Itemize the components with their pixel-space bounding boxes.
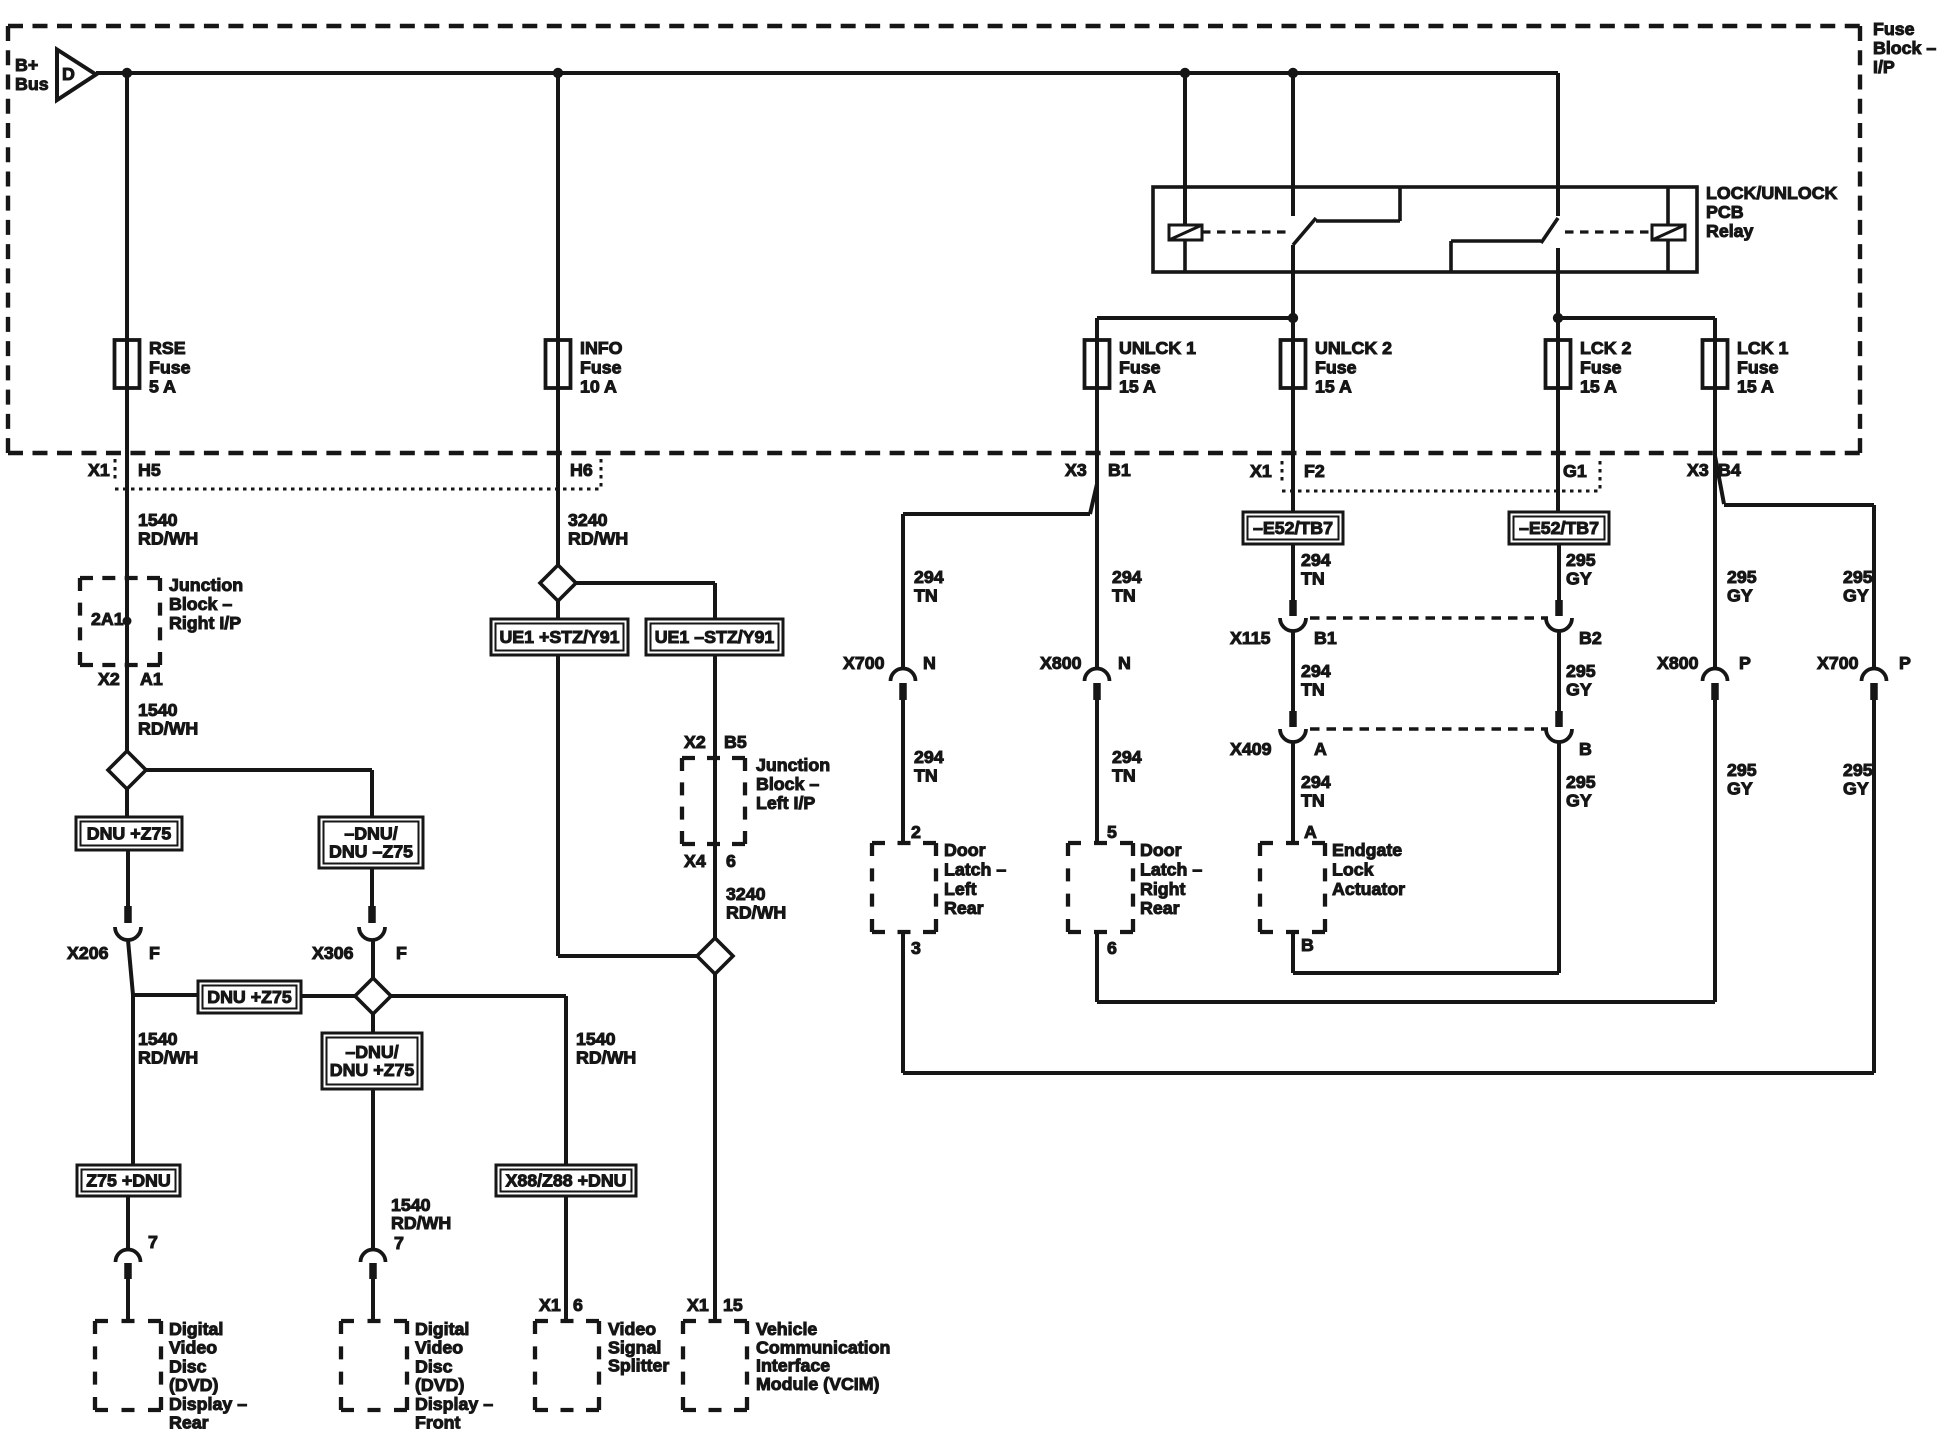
- svg-text:Display –: Display –: [169, 1394, 247, 1414]
- svg-text:B1: B1: [1108, 460, 1131, 480]
- svg-text:B4: B4: [1718, 460, 1741, 480]
- svg-text:Left I/P: Left I/P: [756, 793, 815, 813]
- svg-text:1540: 1540: [391, 1195, 431, 1215]
- svg-text:DNU –Z75: DNU –Z75: [329, 842, 413, 862]
- svg-text:P: P: [1739, 653, 1751, 673]
- svg-text:N: N: [923, 653, 936, 673]
- svg-text:INFO: INFO: [580, 338, 623, 358]
- svg-text:X115: X115: [1230, 628, 1271, 648]
- svg-text:295: 295: [1566, 772, 1596, 792]
- svg-text:Splitter: Splitter: [608, 1356, 669, 1376]
- svg-text:H6: H6: [570, 460, 593, 480]
- svg-text:B1: B1: [1314, 628, 1337, 648]
- svg-text:RD/WH: RD/WH: [576, 1048, 636, 1068]
- svg-text:LCK 2: LCK 2: [1580, 338, 1631, 358]
- svg-text:B: B: [1579, 739, 1592, 759]
- svg-text:DNU +Z75: DNU +Z75: [87, 824, 172, 844]
- svg-text:A: A: [1314, 739, 1327, 759]
- svg-text:X700: X700: [843, 653, 885, 673]
- svg-text:RD/WH: RD/WH: [568, 529, 628, 549]
- svg-text:6: 6: [726, 851, 736, 871]
- svg-text:F: F: [396, 943, 407, 963]
- svg-text:UNLCK 1: UNLCK 1: [1119, 338, 1196, 358]
- svg-text:X800: X800: [1657, 653, 1699, 673]
- svg-text:DNU +Z75: DNU +Z75: [207, 987, 292, 1007]
- svg-text:Digital: Digital: [169, 1319, 223, 1339]
- svg-text:Front: Front: [415, 1413, 461, 1432]
- svg-text:Z75 +DNU: Z75 +DNU: [86, 1171, 171, 1191]
- svg-text:1540: 1540: [576, 1029, 616, 1049]
- svg-text:X88/Z88 +DNU: X88/Z88 +DNU: [505, 1171, 626, 1191]
- svg-text:GY: GY: [1727, 779, 1753, 799]
- svg-text:294: 294: [1301, 661, 1331, 681]
- svg-text:P: P: [1899, 653, 1911, 673]
- svg-text:294: 294: [914, 747, 944, 767]
- svg-text:F2: F2: [1304, 461, 1325, 481]
- svg-text:Rear: Rear: [1140, 898, 1180, 918]
- svg-text:Fuse: Fuse: [580, 357, 622, 377]
- svg-text:X3: X3: [1065, 460, 1087, 480]
- svg-text:B: B: [1301, 935, 1314, 955]
- svg-text:N: N: [1118, 653, 1131, 673]
- svg-text:PCB: PCB: [1706, 202, 1744, 222]
- svg-text:RD/WH: RD/WH: [138, 529, 198, 549]
- svg-text:B5: B5: [724, 732, 747, 752]
- svg-text:295: 295: [1727, 567, 1757, 587]
- svg-text:Door: Door: [1140, 840, 1182, 860]
- svg-text:7: 7: [148, 1232, 158, 1252]
- svg-text:–DNU/: –DNU/: [344, 824, 397, 844]
- svg-text:Fuse: Fuse: [1315, 357, 1357, 377]
- svg-text:Video: Video: [415, 1338, 463, 1358]
- svg-text:GY: GY: [1843, 586, 1869, 606]
- svg-text:295: 295: [1566, 661, 1596, 681]
- svg-text:Communication: Communication: [756, 1337, 890, 1357]
- svg-text:Right I/P: Right I/P: [169, 613, 241, 633]
- svg-text:295: 295: [1566, 550, 1596, 570]
- svg-text:Display –: Display –: [415, 1394, 493, 1414]
- svg-text:X1: X1: [687, 1295, 709, 1315]
- svg-text:3240: 3240: [568, 510, 608, 530]
- svg-text:F: F: [149, 943, 160, 963]
- svg-text:295: 295: [1843, 760, 1873, 780]
- svg-text:–E52/TB7: –E52/TB7: [1519, 518, 1599, 538]
- svg-text:Relay: Relay: [1706, 221, 1754, 241]
- svg-text:X4: X4: [684, 851, 706, 871]
- svg-text:X1: X1: [88, 460, 110, 480]
- svg-text:Left: Left: [944, 879, 977, 899]
- svg-text:X206: X206: [67, 943, 109, 963]
- svg-text:DNU +Z75: DNU +Z75: [330, 1060, 415, 1080]
- svg-text:TN: TN: [1112, 586, 1136, 606]
- svg-text:Bus: Bus: [15, 74, 49, 94]
- svg-text:B+: B+: [15, 55, 38, 75]
- svg-text:Endgate: Endgate: [1332, 840, 1402, 860]
- svg-text:15 A: 15 A: [1737, 377, 1774, 397]
- svg-text:Junction: Junction: [169, 575, 243, 595]
- svg-text:TN: TN: [1301, 680, 1325, 700]
- svg-text:TN: TN: [1112, 766, 1136, 786]
- svg-text:RD/WH: RD/WH: [138, 719, 198, 739]
- svg-text:I/P: I/P: [1873, 57, 1895, 77]
- svg-text:TN: TN: [1301, 569, 1325, 589]
- svg-text:UE1 –STZ/Y91: UE1 –STZ/Y91: [655, 627, 775, 647]
- svg-text:Junction: Junction: [756, 755, 830, 775]
- svg-text:Fuse: Fuse: [1580, 357, 1622, 377]
- svg-text:Disc: Disc: [415, 1356, 453, 1376]
- svg-text:5 A: 5 A: [149, 377, 176, 397]
- svg-text:3: 3: [911, 938, 921, 958]
- svg-text:X700: X700: [1817, 653, 1859, 673]
- svg-text:GY: GY: [1566, 569, 1592, 589]
- svg-text:295: 295: [1843, 567, 1873, 587]
- svg-text:Module (VCIM): Module (VCIM): [756, 1374, 880, 1394]
- svg-text:3240: 3240: [726, 884, 766, 904]
- svg-text:D: D: [62, 64, 75, 84]
- svg-text:TN: TN: [1301, 791, 1325, 811]
- svg-text:Door: Door: [944, 840, 986, 860]
- svg-text:–DNU/: –DNU/: [345, 1042, 398, 1062]
- svg-text:Fuse: Fuse: [1119, 357, 1161, 377]
- svg-text:GY: GY: [1566, 791, 1592, 811]
- svg-text:RD/WH: RD/WH: [391, 1213, 451, 1233]
- svg-text:X306: X306: [312, 943, 354, 963]
- svg-text:UNLCK 2: UNLCK 2: [1315, 338, 1392, 358]
- svg-text:H5: H5: [138, 460, 161, 480]
- svg-text:Rear: Rear: [169, 1413, 209, 1432]
- svg-text:295: 295: [1727, 760, 1757, 780]
- svg-text:Rear: Rear: [944, 898, 984, 918]
- svg-text:Block –: Block –: [169, 594, 232, 614]
- svg-text:Video: Video: [169, 1338, 217, 1358]
- svg-text:Fuse: Fuse: [1737, 357, 1779, 377]
- svg-text:15 A: 15 A: [1315, 377, 1352, 397]
- svg-text:Disc: Disc: [169, 1356, 207, 1376]
- svg-text:15: 15: [723, 1295, 743, 1315]
- svg-text:A: A: [1304, 822, 1317, 842]
- svg-text:5: 5: [1107, 822, 1117, 842]
- svg-text:G1: G1: [1563, 461, 1587, 481]
- svg-text:6: 6: [1107, 938, 1117, 958]
- svg-text:X1: X1: [1250, 461, 1272, 481]
- svg-text:TN: TN: [914, 766, 938, 786]
- svg-text:Latch –: Latch –: [944, 859, 1006, 879]
- svg-text:GY: GY: [1843, 779, 1869, 799]
- svg-text:X1: X1: [539, 1295, 561, 1315]
- svg-text:294: 294: [914, 567, 944, 587]
- svg-text:(DVD): (DVD): [169, 1375, 218, 1395]
- svg-text:7: 7: [394, 1233, 404, 1253]
- svg-text:LCK 1: LCK 1: [1737, 338, 1788, 358]
- svg-text:2A1: 2A1: [91, 609, 124, 629]
- svg-text:X800: X800: [1040, 653, 1082, 673]
- svg-text:TN: TN: [914, 586, 938, 606]
- svg-text:1540: 1540: [138, 700, 178, 720]
- svg-text:GY: GY: [1727, 586, 1753, 606]
- svg-text:Lock: Lock: [1332, 859, 1374, 879]
- svg-text:15 A: 15 A: [1119, 377, 1156, 397]
- svg-text:294: 294: [1301, 550, 1331, 570]
- svg-text:RSE: RSE: [149, 338, 186, 358]
- svg-text:Right: Right: [1140, 879, 1186, 899]
- svg-text:Fuse: Fuse: [149, 357, 191, 377]
- svg-text:Interface: Interface: [756, 1356, 830, 1376]
- svg-text:Fuse: Fuse: [1873, 19, 1915, 39]
- svg-text:(DVD): (DVD): [415, 1375, 464, 1395]
- svg-text:Vehicle: Vehicle: [756, 1319, 817, 1339]
- svg-text:GY: GY: [1566, 680, 1592, 700]
- svg-text:LOCK/UNLOCK: LOCK/UNLOCK: [1706, 183, 1838, 203]
- svg-text:Digital: Digital: [415, 1319, 469, 1339]
- svg-text:294: 294: [1112, 567, 1142, 587]
- svg-text:2: 2: [911, 822, 921, 842]
- svg-text:–E52/TB7: –E52/TB7: [1253, 518, 1333, 538]
- svg-text:B2: B2: [1579, 628, 1602, 648]
- svg-text:X3: X3: [1687, 460, 1709, 480]
- svg-text:UE1 +STZ/Y91: UE1 +STZ/Y91: [499, 627, 619, 647]
- svg-text:6: 6: [573, 1295, 583, 1315]
- svg-text:1540: 1540: [138, 1029, 178, 1049]
- svg-text:RD/WH: RD/WH: [726, 903, 786, 923]
- svg-text:Signal: Signal: [608, 1337, 661, 1357]
- svg-text:1540: 1540: [138, 510, 178, 530]
- svg-text:X2: X2: [98, 669, 120, 689]
- svg-text:X2: X2: [684, 732, 706, 752]
- svg-text:Actuator: Actuator: [1332, 879, 1405, 899]
- svg-text:A1: A1: [140, 669, 163, 689]
- svg-text:X409: X409: [1230, 739, 1272, 759]
- svg-text:294: 294: [1112, 747, 1142, 767]
- svg-text:15 A: 15 A: [1580, 377, 1617, 397]
- svg-text:Block –: Block –: [756, 774, 819, 794]
- svg-text:Video: Video: [608, 1319, 656, 1339]
- svg-text:10 A: 10 A: [580, 377, 617, 397]
- svg-text:Latch –: Latch –: [1140, 859, 1202, 879]
- svg-text:RD/WH: RD/WH: [138, 1048, 198, 1068]
- svg-text:Block –: Block –: [1873, 38, 1936, 58]
- svg-text:294: 294: [1301, 772, 1331, 792]
